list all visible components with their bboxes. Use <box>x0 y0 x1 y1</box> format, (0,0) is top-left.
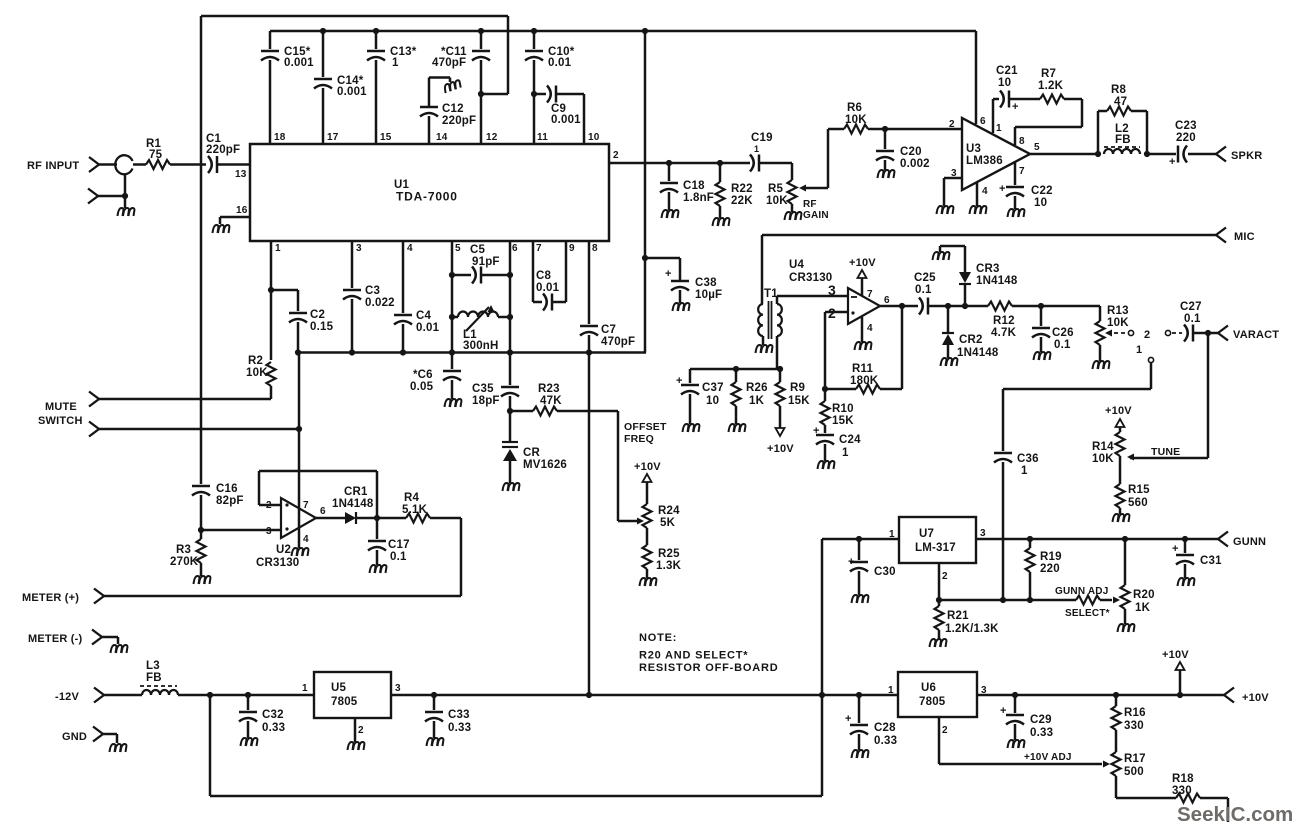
capacitor C2 <box>289 313 307 353</box>
pin 14 label <box>436 132 448 143</box>
junction R9 T1 <box>777 366 783 372</box>
U3 pin3 wire <box>944 178 962 206</box>
junction C31 <box>1182 536 1188 542</box>
svg-text:220: 220 <box>1040 563 1060 575</box>
C31 plus <box>1172 543 1179 555</box>
R20 label <box>1133 589 1155 614</box>
U1 label <box>394 179 458 204</box>
svg-text:7: 7 <box>303 500 309 511</box>
junction x645 top bus <box>642 28 648 34</box>
resistor R1 <box>146 160 170 169</box>
svg-text:560: 560 <box>1128 497 1148 509</box>
C38 plus <box>665 268 672 280</box>
select position 2 label <box>1144 329 1150 341</box>
U5 pin2 label <box>358 725 364 736</box>
svg-text:2: 2 <box>1144 329 1150 341</box>
svg-text:MV1626: MV1626 <box>523 459 567 471</box>
svg-text:1: 1 <box>888 685 894 696</box>
svg-text:4: 4 <box>303 534 309 545</box>
svg-text:0.001: 0.001 <box>337 86 367 98</box>
U6 pin2 stub <box>938 717 941 764</box>
svg-text:10: 10 <box>998 77 1011 89</box>
junction C33 <box>431 692 437 698</box>
svg-text:R15: R15 <box>1128 484 1150 496</box>
junction shield <box>122 193 128 199</box>
R5 label <box>766 183 788 207</box>
svg-text:LM-317: LM-317 <box>915 542 956 554</box>
capacitor C30 <box>850 539 868 595</box>
svg-text:GAIN: GAIN <box>803 210 829 221</box>
node +10V ADJ label <box>1024 752 1072 763</box>
junction C35 R23 <box>507 408 513 414</box>
svg-text:91pF: 91pF <box>472 256 500 268</box>
svg-text:0.33: 0.33 <box>448 722 471 734</box>
svg-text:C21: C21 <box>996 65 1018 77</box>
VARACT connector arrow <box>1218 326 1228 341</box>
wire U7 output <box>976 538 1218 541</box>
wire R1 to C1 <box>170 163 206 166</box>
ground pin 16 <box>213 225 230 233</box>
capacitor C9 <box>534 86 584 145</box>
C20 label <box>900 146 930 170</box>
pin 1 label <box>275 243 281 254</box>
R10 label <box>832 403 854 427</box>
R3 label <box>170 544 199 568</box>
U4 pin4 label <box>867 323 873 334</box>
U3 pin5 label <box>1034 142 1040 153</box>
U2 pin6 label <box>320 506 326 517</box>
wire C1 to U1 pin 13 <box>217 163 250 166</box>
svg-text:75: 75 <box>149 149 163 161</box>
capacitor C29 <box>1006 695 1024 740</box>
C33 label <box>448 709 471 734</box>
svg-text:17: 17 <box>327 132 339 143</box>
wire to C38 <box>645 258 680 280</box>
U2 input dots <box>285 503 288 530</box>
U7 pin2 label <box>942 571 948 582</box>
svg-text:8: 8 <box>592 243 598 254</box>
svg-text:10: 10 <box>706 395 719 407</box>
wire +10V adj line <box>939 761 1110 768</box>
C23 label <box>1175 120 1197 144</box>
svg-text:+: + <box>1012 101 1019 113</box>
wire pin5 column <box>451 241 454 353</box>
ground C37 <box>683 424 700 432</box>
wire C23 to SPKR <box>1188 153 1216 156</box>
pin 4 label <box>407 243 413 254</box>
wire -12V to L3 <box>104 694 142 697</box>
wire pin1 R2 column <box>270 241 273 360</box>
svg-text:1K: 1K <box>1135 602 1151 614</box>
svg-text:0.1: 0.1 <box>390 551 407 563</box>
C21 plus <box>1012 101 1019 113</box>
C22 plus <box>999 183 1006 195</box>
svg-text:1: 1 <box>1136 344 1142 356</box>
voltage regulator U6 box <box>898 672 977 717</box>
ground C17 <box>370 565 387 573</box>
wire U3 pin6 supply <box>975 31 978 124</box>
svg-text:C12: C12 <box>442 103 464 115</box>
svg-text:R18: R18 <box>1172 773 1194 785</box>
ground R21 <box>930 639 947 647</box>
wire top box <box>201 16 508 94</box>
resistor R6 <box>828 125 962 134</box>
R24 supply label <box>634 461 661 473</box>
capacitor C12 <box>420 78 450 145</box>
junction C11 pin12 top box <box>478 91 484 97</box>
U3 pin4 label <box>982 186 988 197</box>
T1 secondary top wire <box>777 296 848 304</box>
C17 label <box>388 539 410 563</box>
C36 label <box>1017 453 1039 477</box>
L1 label <box>463 329 499 352</box>
svg-text:0.002: 0.002 <box>900 158 930 170</box>
wire C25 east <box>928 305 988 308</box>
R2 label <box>246 355 268 379</box>
pin 7 label <box>536 243 542 254</box>
SELECT label <box>1065 608 1110 619</box>
svg-text:C30: C30 <box>874 566 896 578</box>
svg-text:0.01: 0.01 <box>416 322 440 334</box>
svg-text:3: 3 <box>395 683 401 694</box>
svg-text:SPKR: SPKR <box>1231 150 1262 162</box>
transformer T1 <box>758 301 782 339</box>
potentiometer R5 <box>788 180 797 212</box>
junction pin5 L1 <box>449 314 455 320</box>
pin 8 label <box>592 243 598 254</box>
resistor R12 <box>988 302 1041 311</box>
svg-text:R20 AND SELECT*: R20 AND SELECT* <box>639 650 748 662</box>
svg-text:GUNN ADJ: GUNN ADJ <box>1055 586 1108 597</box>
op-amp U2 <box>281 498 316 538</box>
svg-text:CR3130: CR3130 <box>256 557 299 569</box>
ground R15 <box>1113 514 1130 522</box>
svg-text:CR2: CR2 <box>959 334 983 346</box>
potentiometer R13 <box>1096 306 1105 361</box>
capacitor C33 <box>425 695 443 738</box>
svg-text:C38: C38 <box>695 277 717 289</box>
capacitor C17 <box>368 518 386 565</box>
U4 pin2 big label <box>828 305 836 321</box>
C19 label <box>751 132 773 154</box>
wire C27 to VARACT <box>1193 332 1218 335</box>
feedback R11 wire <box>825 306 902 389</box>
R25 label <box>656 548 682 572</box>
svg-text:R3: R3 <box>176 544 191 556</box>
svg-text:10K: 10K <box>1092 453 1114 465</box>
svg-text:1: 1 <box>275 243 281 254</box>
C37 label <box>702 382 724 407</box>
C31 label <box>1200 555 1222 567</box>
C11 label <box>432 46 467 69</box>
svg-text:U6: U6 <box>921 682 936 694</box>
resistor GUNN ADJ select <box>1076 596 1120 605</box>
wire meter minus stub <box>102 637 118 644</box>
junction R26 <box>733 366 739 372</box>
svg-text:C3: C3 <box>365 285 380 297</box>
R9 supply arrow <box>776 428 785 436</box>
junction C29 <box>1012 692 1018 698</box>
svg-text:R13: R13 <box>1107 305 1129 317</box>
junction pin5 bus <box>449 349 455 355</box>
R17 label <box>1124 753 1146 778</box>
svg-text:47K: 47K <box>540 395 562 407</box>
svg-text:RESISTOR OFF-BOARD: RESISTOR OFF-BOARD <box>639 662 778 674</box>
C23 plus <box>1169 156 1176 168</box>
junction CR3 <box>962 303 968 309</box>
wire pin6 column <box>509 241 512 353</box>
U2 pin4 label <box>303 534 309 545</box>
potentiometer R14 <box>1116 432 1125 484</box>
R6 label <box>845 102 867 126</box>
diode CR2 <box>942 306 954 358</box>
svg-text:4.7K: 4.7K <box>991 327 1017 339</box>
U4 minus mark <box>851 296 857 298</box>
C4 label <box>416 310 440 334</box>
svg-text:3: 3 <box>356 243 362 254</box>
L2 dashes <box>1104 146 1140 148</box>
svg-text:FB: FB <box>146 672 162 684</box>
svg-text:C35: C35 <box>472 383 494 395</box>
ground U2 supply <box>292 548 309 556</box>
svg-text:220pF: 220pF <box>206 144 240 156</box>
pin 2 label <box>613 150 619 161</box>
svg-text:15K: 15K <box>832 415 854 427</box>
svg-text:C36: C36 <box>1017 453 1039 465</box>
capacitor C1 <box>208 156 217 173</box>
pin 11 label <box>537 132 548 143</box>
C29 label <box>1030 714 1053 739</box>
node MIC label <box>1234 231 1255 243</box>
C10 label <box>548 46 575 69</box>
svg-text:6: 6 <box>320 506 326 517</box>
select position 1 label <box>1136 344 1142 356</box>
ground C31 <box>1178 578 1195 586</box>
svg-text:C25: C25 <box>914 272 936 284</box>
C30 plus <box>848 556 855 568</box>
svg-text:220pF: 220pF <box>442 115 476 127</box>
capacitor C8 bracket <box>533 241 566 311</box>
CR3 label <box>976 263 1018 287</box>
C9 label <box>551 103 581 126</box>
capacitor C1 label <box>206 133 240 156</box>
wire R4 to meter <box>104 518 461 596</box>
junction +10V stub <box>1177 692 1183 698</box>
svg-text:U5: U5 <box>331 682 347 694</box>
junction varact <box>1205 330 1211 336</box>
svg-text:SELECT*: SELECT* <box>1065 608 1110 619</box>
C30 label <box>874 566 896 578</box>
C14 label <box>337 75 367 98</box>
node VARACT label <box>1233 329 1279 341</box>
wire position1 to C36 <box>1003 363 1151 451</box>
wire L3 east <box>178 694 314 697</box>
ground C6 <box>445 399 462 407</box>
capacitor C16 <box>192 486 210 530</box>
U4 label <box>789 259 832 284</box>
junction bus C13 <box>373 28 379 34</box>
svg-text:RF INPUT: RF INPUT <box>27 160 79 172</box>
ground C29 <box>1008 740 1025 748</box>
R5 wiper wire <box>799 129 828 192</box>
svg-text:270K: 270K <box>170 556 199 568</box>
varactor CR MV1626 <box>502 411 518 483</box>
GND connector arrow <box>93 727 103 742</box>
C2 label <box>310 309 334 333</box>
U6 label <box>919 682 946 708</box>
node TUNE label <box>1151 446 1180 458</box>
svg-text:SWITCH: SWITCH <box>38 415 83 427</box>
svg-text:0.33: 0.33 <box>1030 727 1053 739</box>
junction output R8 right <box>1144 151 1150 157</box>
ground CR <box>503 483 520 491</box>
junction R6 C20 <box>882 126 888 132</box>
node RF GAIN label <box>803 199 829 221</box>
svg-text:2: 2 <box>942 571 948 582</box>
inductor L1 <box>452 312 510 318</box>
ground U4 pin4 <box>855 342 872 350</box>
junction C7 bus <box>586 349 592 355</box>
junction R16 top <box>1113 692 1119 698</box>
capacitor C31 <box>1176 539 1194 578</box>
wire U7 input <box>822 538 899 541</box>
svg-text:4: 4 <box>982 186 988 197</box>
svg-text:10: 10 <box>1034 197 1047 209</box>
wire U1 pin 2 east <box>609 162 750 165</box>
wire U5 output rail <box>391 694 898 697</box>
svg-text:+: + <box>1000 705 1007 717</box>
svg-text:10K: 10K <box>1107 317 1129 329</box>
capacitor C5 <box>452 267 510 284</box>
junction bus C11 <box>478 28 484 34</box>
wire x822 vertical <box>821 539 824 796</box>
junction bus C10 <box>531 28 537 34</box>
ground C12 <box>443 80 462 93</box>
U4 pin2 wire <box>825 312 848 389</box>
voltage regulator U7 box <box>899 517 976 563</box>
wire gnd stub <box>103 734 117 743</box>
capacitor C19 <box>750 155 759 172</box>
resistor R23 <box>510 407 618 416</box>
wire R7 to pin8 <box>1015 99 1082 145</box>
U3 pin7 label <box>1019 166 1025 177</box>
wire U2 feedback <box>259 471 377 517</box>
svg-text:C37: C37 <box>702 382 724 394</box>
svg-text:R21: R21 <box>947 610 969 622</box>
svg-text:R12: R12 <box>993 315 1015 327</box>
U7 pin1 label <box>889 529 895 540</box>
svg-text:R20: R20 <box>1133 589 1155 601</box>
svg-text:15K: 15K <box>788 395 810 407</box>
svg-text:12: 12 <box>486 132 498 143</box>
svg-text:R25: R25 <box>658 548 680 560</box>
junction R20 top <box>1122 536 1128 542</box>
capacitor C21 <box>993 91 1009 108</box>
+10V connector arrow <box>1224 688 1234 703</box>
svg-text:+: + <box>665 268 672 280</box>
MUTE connector arrow <box>89 392 99 407</box>
svg-text:LM386: LM386 <box>966 155 1003 167</box>
pin 9 label <box>569 243 575 254</box>
svg-text:0.001: 0.001 <box>284 57 314 69</box>
pin 13 label <box>235 169 247 180</box>
svg-text:3: 3 <box>980 528 986 539</box>
R9 supply label <box>767 443 794 455</box>
junction pin6 C5 <box>507 272 513 278</box>
svg-text:R9: R9 <box>790 382 805 394</box>
junction C4 bus <box>400 349 406 355</box>
capacitor C3 <box>343 241 361 353</box>
R4 label <box>402 492 428 516</box>
svg-text:C7: C7 <box>601 324 616 336</box>
diode CR3 <box>940 246 971 306</box>
svg-text:10: 10 <box>588 132 600 143</box>
wire RF input to coax <box>99 163 117 166</box>
svg-text:4: 4 <box>407 243 413 254</box>
capacitor C14 <box>314 31 332 144</box>
U3 pin1 label <box>996 123 1002 134</box>
svg-text:0.33: 0.33 <box>262 722 285 734</box>
C38 label <box>695 277 722 301</box>
capacitor C38 <box>671 281 689 303</box>
junction +5 rail x589 <box>586 692 592 698</box>
ground CR2 <box>941 358 958 366</box>
svg-text:6: 6 <box>980 116 986 127</box>
junction adj C36 <box>1000 597 1006 603</box>
capacitor C7 <box>580 241 598 353</box>
svg-text:22K: 22K <box>731 195 753 207</box>
capacitor C18 <box>660 163 678 210</box>
capacitor C35 <box>501 353 519 412</box>
svg-text:1: 1 <box>1021 465 1028 477</box>
wire pin1 to C2 <box>271 290 298 311</box>
svg-text:SeekIC.com: SeekIC.com <box>1177 803 1293 826</box>
capacitor C20 <box>876 129 894 170</box>
capacitor C28 <box>850 695 868 750</box>
svg-text:47: 47 <box>1114 96 1127 108</box>
U2 pin2 label <box>266 500 272 511</box>
svg-text:1: 1 <box>842 447 849 459</box>
svg-text:U3: U3 <box>966 143 981 155</box>
resistor R16 <box>1112 695 1121 752</box>
resistor R26 <box>732 369 741 424</box>
junction x645 C38 <box>642 255 648 261</box>
wire mute <box>99 398 271 401</box>
SWITCH connector arrow <box>89 422 99 437</box>
svg-text:1: 1 <box>754 144 759 154</box>
svg-text:7: 7 <box>867 289 873 300</box>
T1 secondary bottom wire <box>776 336 779 369</box>
C18 label <box>683 180 714 204</box>
MIC connector arrow <box>1216 228 1226 243</box>
ground R13 <box>1093 361 1110 369</box>
svg-text:C4: C4 <box>416 310 432 322</box>
R24 supply arrow <box>643 474 652 504</box>
svg-text:L3: L3 <box>146 660 160 672</box>
capacitor C23 <box>1178 146 1187 163</box>
ground U3 pin3 <box>937 206 954 214</box>
svg-text:+10V: +10V <box>1162 649 1189 661</box>
pin 16 stub wire <box>220 217 250 224</box>
U4 supply label <box>849 257 876 269</box>
METER+ connector arrow <box>94 589 104 604</box>
svg-text:R19: R19 <box>1040 551 1062 563</box>
L2 label <box>1115 123 1131 146</box>
svg-text:0.1: 0.1 <box>915 284 932 296</box>
C16 label <box>216 483 244 507</box>
svg-text:1: 1 <box>302 683 308 694</box>
junction R11 R10 <box>822 386 828 392</box>
